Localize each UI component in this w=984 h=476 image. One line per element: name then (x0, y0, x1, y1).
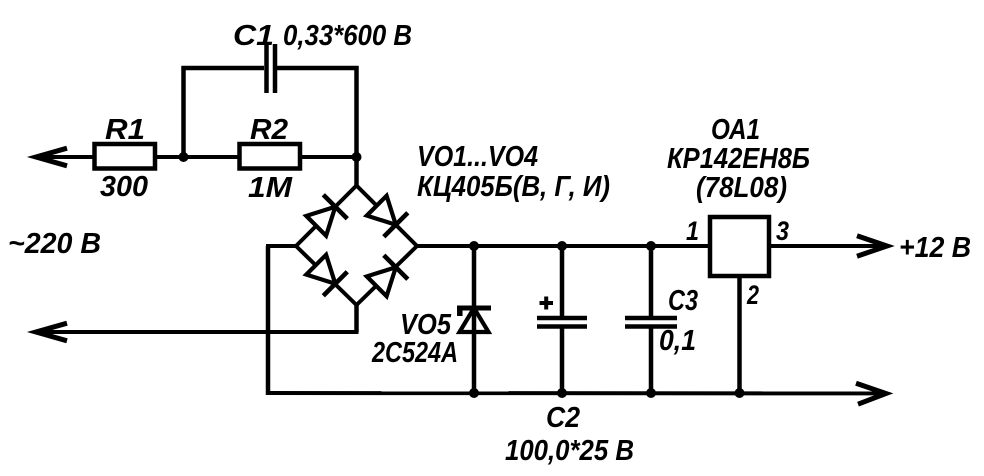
svg-text:C1: C1 (233, 20, 274, 52)
svg-text:С3: С3 (668, 285, 698, 317)
wire: C1 top wire right segment (277, 66, 359, 71)
wire: R1 to R2 (155, 155, 240, 159)
wire: C2 branch top (560, 246, 565, 318)
wire: C1 top wire left segment (182, 66, 265, 71)
svg-text:С2: С2 (546, 402, 580, 434)
zener diode VO5 (457, 308, 491, 332)
wire: pin 2 ground drop (737, 276, 742, 393)
svg-text:100,0*25 В: 100,0*25 В (505, 435, 634, 467)
svg-text:КР142ЕН8Б: КР142ЕН8Б (667, 143, 810, 175)
svg-text:(78L08): (78L08) (696, 172, 787, 204)
resistor R2 (240, 144, 301, 169)
wire: VO5 branch vertical (472, 246, 477, 393)
wire: bridge edge bottom-left (296, 246, 357, 305)
wire: bridge edge top-right (357, 186, 418, 247)
arrow: AC line 1 left arrowhead (36, 148, 67, 166)
wire: pin 3 output to arrow (769, 244, 884, 248)
resistor R1 (95, 144, 156, 169)
wire: right riser from C1 loop (354, 66, 359, 157)
node: junction right (R2/C1/bridge) (352, 152, 362, 162)
svg-text:VO1...VO4: VO1...VO4 (417, 141, 538, 173)
node: C2 top junction (557, 241, 567, 251)
wire: bridge edge top-left (296, 186, 357, 247)
wire: plus rail bridge to regulator (417, 244, 710, 248)
node: C2 bottom junction (557, 388, 567, 398)
svg-text:~220 В: ~220 В (8, 228, 101, 260)
wire: C3 branch bottom (649, 327, 654, 394)
wire: bottom rail (266, 391, 883, 395)
svg-text:ОА1: ОА1 (711, 114, 760, 146)
svg-text:R1: R1 (105, 114, 145, 146)
svg-text:0,33*600 В: 0,33*600 В (283, 20, 412, 52)
node: C3 bottom junction (646, 388, 656, 398)
node: junction left (R1/R2/C1) (179, 152, 189, 162)
capacitor C1 plates (264, 44, 269, 93)
wire: AC line 2 shaft (37, 330, 359, 334)
svg-text:1: 1 (686, 216, 699, 246)
diode VD2 (bridge top-right) (367, 196, 408, 237)
wire: bridge bottom vertex drop (354, 305, 359, 332)
svg-text:R2: R2 (250, 114, 288, 146)
wire: C3 branch top (649, 246, 654, 318)
diode VD3 (bridge bottom-left) (306, 255, 347, 296)
node: pin 2 bottom junction (735, 388, 745, 398)
svg-text:+12 В: +12 В (899, 232, 971, 264)
wire: left riser to C1 loop (181, 66, 186, 157)
svg-text:2: 2 (746, 280, 759, 310)
svg-text:2С524А: 2С524А (371, 337, 458, 369)
arrow: AC line 2 left arrowhead (36, 323, 67, 341)
svg-text:КЦ405Б(В, Г, И): КЦ405Б(В, Г, И) (417, 171, 610, 203)
diode VD1 (bridge top-left) (306, 195, 347, 236)
wire: bridge left vertex to minus drop (266, 244, 296, 248)
node: VO5 top junction (469, 241, 479, 251)
wire: bridge edge bottom-right (357, 246, 418, 305)
wire: R2 to bridge top node (300, 155, 357, 159)
wire: drop to bridge top vertex (354, 157, 359, 186)
polarity plus sign of C2 (540, 297, 554, 310)
arrow: +12V output arrowhead (857, 236, 887, 256)
svg-text:3: 3 (776, 216, 789, 246)
capacitor C2 plates (537, 318, 587, 327)
regulator OA1 box (710, 217, 769, 276)
wire: C2 branch bottom (560, 327, 565, 394)
svg-text:0,1: 0,1 (659, 325, 696, 357)
node: VO5 bottom junction (469, 388, 479, 398)
wire: minus drop vertical (266, 246, 271, 395)
svg-text:300: 300 (100, 171, 148, 203)
wire: left AC line 1 shaft (37, 155, 95, 159)
svg-text:1М: 1М (248, 172, 293, 204)
diode VD4 (bridge bottom-right) (367, 255, 408, 296)
node: C3 top junction (646, 241, 656, 251)
arrow: bottom rail output arrowhead (856, 383, 886, 404)
capacitor C3 plates (625, 318, 677, 327)
